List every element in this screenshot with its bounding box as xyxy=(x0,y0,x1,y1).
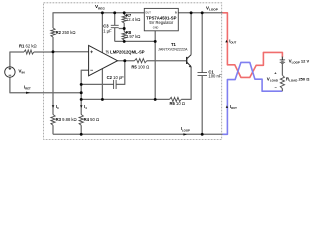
wire tap to C3 plate xyxy=(119,28,125,30)
resistor R2 250k xyxy=(51,28,55,37)
wire top rail V_REG from left corner to regulator xyxy=(53,13,144,28)
wire R8 bottom stub xyxy=(123,40,125,41)
junction V_LOOP rail / C1 top xyxy=(201,11,204,14)
svg-text:R4 50 Ω: R4 50 Ω xyxy=(84,117,99,122)
arrow I_OUT bottom xyxy=(226,105,228,108)
wire C3 bottom stem xyxy=(114,28,116,42)
op-amp U1 half LMP2012QML-SP triangle xyxy=(89,45,118,75)
junction R8 bottom xyxy=(123,40,126,43)
svg-text:R1 62 kΩ: R1 62 kΩ xyxy=(19,44,37,49)
wire regulator GND pin rail xyxy=(154,31,156,100)
wire gnd/emitter rail to R6 xyxy=(81,98,169,100)
op-amp - input sign xyxy=(90,69,93,71)
svg-text:IOUT: IOUT xyxy=(230,104,237,110)
junction feedback node / I_RET xyxy=(80,91,83,94)
wire R7/R8 tap segment xyxy=(123,23,125,32)
resistor R1 62k xyxy=(24,50,34,54)
junction feedback node / R4 / emitter wire xyxy=(80,98,83,101)
svg-text:5V Regulator: 5V Regulator xyxy=(149,20,174,25)
wire C2 right segment up to output node xyxy=(116,61,125,85)
capacitor C2 10pF plates xyxy=(114,80,117,89)
resistor R3 9.88k xyxy=(51,115,55,126)
transistor T1 JANTXV2N2222A xyxy=(186,57,188,64)
junction gnd rail / R8 xyxy=(154,40,157,43)
wire R5 to T1 base xyxy=(147,60,187,62)
svg-text:3.97 kΩ: 3.97 kΩ xyxy=(126,34,141,39)
source V_IN circle xyxy=(5,67,15,77)
wire C1 top rail xyxy=(201,13,203,73)
svg-text:ILOOP: ILOOP xyxy=(181,126,190,132)
wire C3 top stem xyxy=(114,13,116,25)
junction R7/R8 tap xyxy=(123,27,126,30)
svg-text:R3 9.88 kΩ: R3 9.88 kΩ xyxy=(56,117,77,122)
junction V_REG / C3 top xyxy=(113,11,116,14)
svg-text:+: + xyxy=(274,71,277,76)
resistor R4 50 xyxy=(79,115,83,126)
resistor R5 100 xyxy=(135,59,147,63)
wire loop red (out) with twisted pair xyxy=(223,13,283,78)
wire op-amp output to R5 xyxy=(118,60,135,62)
wire bottom rail I_LOOP xyxy=(53,133,223,135)
svg-text:VLOOP: VLOOP xyxy=(206,5,218,11)
svg-text:IOUT: IOUT xyxy=(229,39,236,45)
junction V_REG / op-amp V+ pin xyxy=(101,11,104,14)
arrow I_OUT top xyxy=(225,40,227,43)
wire op-amp V+ supply pin xyxy=(101,13,103,53)
svg-text:IN: IN xyxy=(175,11,178,15)
svg-text:R2 250 kΩ: R2 250 kΩ xyxy=(56,30,76,35)
svg-text:IRET: IRET xyxy=(24,84,31,90)
svg-text:R6 10 Ω: R6 10 Ω xyxy=(170,101,185,106)
wire C2 feedback left segment xyxy=(81,83,113,85)
svg-text:C2 10 pF: C2 10 pF xyxy=(107,75,125,80)
junction emitter wire / gnd rail xyxy=(154,98,157,101)
node A R1/R2/R3 op-amp +input xyxy=(52,50,55,53)
resistor R6 10 xyxy=(170,97,182,101)
battery V_LOOP 12V xyxy=(281,57,283,60)
wire regulator IN pin to V_LOOP node xyxy=(178,12,222,14)
junction bottom rail / C1 xyxy=(201,133,204,136)
wire R7 top stem xyxy=(123,13,125,15)
svg-text:12.4 kΩ: 12.4 kΩ xyxy=(126,17,141,22)
wire R3 bottom to bottom rail xyxy=(52,125,54,134)
voltage regulator U2 TPS7A4501-SP box xyxy=(144,8,178,30)
svg-text:I3: I3 xyxy=(56,104,59,110)
junction emitter wire / op-amp V- pin xyxy=(101,98,104,101)
arrow I_RET xyxy=(26,92,30,94)
wire op-amp V- supply pin xyxy=(101,69,103,100)
transmitter boundary (dashed box) xyxy=(44,3,222,140)
wire T1 collector rail to top xyxy=(190,13,192,55)
svg-text:VLOOP 12 V: VLOOP 12 V xyxy=(289,58,310,64)
wire R8 bottom / C3 bottom to gnd rail xyxy=(115,40,156,42)
svg-text:VREG: VREG xyxy=(95,4,105,10)
junction op-amp output / C2 xyxy=(123,59,126,62)
wire R1 right to +input node xyxy=(34,51,53,53)
junction bottom rail / R4 xyxy=(80,133,83,136)
arrow I_LOOP xyxy=(183,133,187,135)
svg-text:−: − xyxy=(275,85,278,90)
resistor R8 3.97k xyxy=(122,32,126,41)
resistor R_LOAD 250 xyxy=(280,75,284,88)
capacitor C1 100nF plates xyxy=(198,73,208,76)
wire R_LOAD bottom xyxy=(281,89,283,92)
svg-text:½ LMP2012QML-SP: ½ LMP2012QML-SP xyxy=(106,49,145,54)
resistor R7 12.4k xyxy=(122,15,126,24)
wire C1 bottom rail xyxy=(201,76,203,135)
svg-text:GND: GND xyxy=(153,27,159,30)
wire loop blue (return) with twisted pair xyxy=(223,62,283,134)
svg-text:I4: I4 xyxy=(84,104,87,110)
svg-text:1 µF: 1 µF xyxy=(103,28,112,33)
capacitor C3 1uF plates xyxy=(111,25,119,27)
svg-text:OUT: OUT xyxy=(145,11,151,15)
wire R4 bottom to bottom rail xyxy=(80,125,82,134)
wire left rail R2 bottom to node to R3 top xyxy=(52,37,54,115)
junction V_REG / R7 top xyxy=(123,11,126,14)
svg-text:T1: T1 xyxy=(171,42,177,47)
wire V_IN top stem xyxy=(10,52,24,67)
wire op-amp -input to feedback rail xyxy=(81,70,88,114)
svg-text:VIN: VIN xyxy=(18,69,25,75)
svg-text:R5 100 Ω: R5 100 Ω xyxy=(131,64,149,69)
svg-text:VLOAD: VLOAD xyxy=(267,77,278,83)
arrow I3 xyxy=(52,105,55,108)
wire R6 to emitter xyxy=(181,67,191,100)
wire V_IN bottom stem and I_RET return xyxy=(10,77,81,93)
svg-text:JANTXV2N2222A: JANTXV2N2222A xyxy=(158,48,188,52)
svg-text:100 nF: 100 nF xyxy=(208,73,221,78)
transistor T1 emitter arrow xyxy=(189,65,192,68)
junction feedback node / C2 xyxy=(80,83,83,86)
node wire +input to op-amp xyxy=(53,51,89,53)
op-amp + input sign xyxy=(90,51,93,54)
svg-text:RLOAD 250 Ω: RLOAD 250 Ω xyxy=(286,77,310,83)
arrow I4 xyxy=(80,105,83,108)
junction V_LOOP rail / T1 collector xyxy=(190,11,193,14)
